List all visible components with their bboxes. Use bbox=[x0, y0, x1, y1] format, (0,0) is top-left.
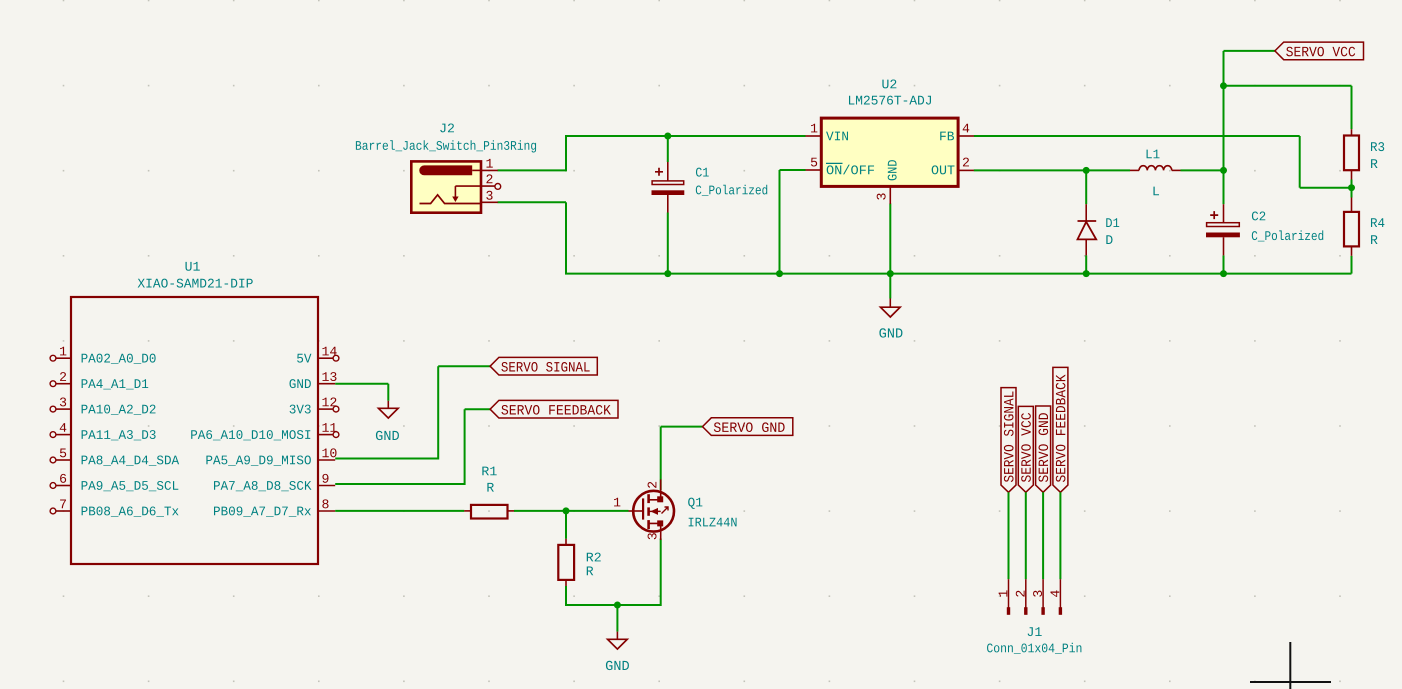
global label SERVO GND bbox=[703, 418, 793, 436]
global label SERVO SIGNAL at J1 bbox=[1001, 388, 1016, 493]
wire OUT to D1 bbox=[974, 169, 1086, 171]
wire J1 pin 2 bbox=[1025, 492, 1027, 579]
node U2 GND junction bbox=[887, 270, 894, 277]
wire J2 pin1 to VIN segment A bbox=[498, 169, 567, 171]
wire Q1 drain riser bbox=[660, 427, 662, 490]
J1 reference designator bbox=[1028, 627, 1042, 636]
node C1 top junction bbox=[664, 133, 671, 140]
wire R3 bottom to node bbox=[1351, 180, 1353, 188]
J1 pin 3 bbox=[1042, 579, 1044, 614]
wire top rail to U2 VIN bbox=[565, 135, 806, 137]
wire C1 bottom lead bbox=[667, 213, 669, 274]
wire FB to divider bbox=[1300, 187, 1352, 189]
U1 pin 9 PA7_A8_D8_SCK bbox=[318, 485, 335, 487]
resistor R4 bbox=[1351, 198, 1353, 212]
wire J1 pin 1 bbox=[1008, 492, 1010, 579]
U1 pin 8 PB09_A7_D7_Rx bbox=[318, 510, 335, 512]
wire D1 bottom green lead bbox=[1085, 255, 1087, 273]
transistor Q1 body bbox=[633, 491, 674, 532]
wire SERVO VCC riser bbox=[1223, 51, 1225, 170]
J2 sleeve contact bar bbox=[419, 165, 472, 175]
wire C2 bottom lead bbox=[1223, 255, 1225, 273]
global label SERVO VCC at J1 bbox=[1018, 406, 1033, 492]
J2 switch arm bbox=[454, 186, 456, 197]
U1 pin 10 PA5_A9_D9_MISO bbox=[318, 459, 335, 461]
C1 value label bbox=[696, 185, 767, 196]
global label SERVO SIGNAL bbox=[490, 357, 597, 375]
node gate junction bbox=[563, 507, 570, 514]
wire R3 top lead bbox=[1351, 86, 1353, 129]
R3 reference designator bbox=[1371, 142, 1384, 151]
wire VCC to R3 branch bbox=[1224, 85, 1352, 87]
J1 pin 2 bbox=[1025, 579, 1027, 614]
U1 pin 4 PA11_A3_D3 bbox=[56, 434, 71, 436]
R2 value label bbox=[587, 567, 594, 576]
J2 pin 1 bbox=[481, 169, 498, 171]
Q1 value label bbox=[689, 518, 737, 527]
global label SERVO GND at J1 bbox=[1036, 406, 1051, 492]
wire Q1 source drop bbox=[660, 539, 662, 607]
wire FB drop bbox=[1299, 136, 1301, 188]
R1 reference designator bbox=[482, 467, 496, 476]
node R3 R4 divider junction bbox=[1348, 184, 1355, 191]
wire ON/OFF riser bbox=[779, 170, 781, 274]
resistor R3 bbox=[1351, 129, 1353, 135]
Q1 reference designator bbox=[688, 498, 702, 509]
node SERVO VCC junction bbox=[1220, 82, 1227, 89]
R4 value label bbox=[1371, 235, 1378, 244]
J1 pin 1 bbox=[1008, 579, 1010, 614]
C2 reference designator bbox=[1252, 211, 1265, 220]
U1 pin 12 3V3 bbox=[318, 408, 333, 410]
R4 reference designator bbox=[1371, 218, 1384, 227]
regulator U2 body bbox=[821, 118, 958, 186]
ground symbol near U1 bbox=[387, 401, 389, 409]
inductor L1 bbox=[1130, 169, 1139, 171]
Q1 source pin 3 bbox=[649, 523, 661, 531]
U2 reference designator bbox=[882, 79, 896, 88]
wire junction to R2 bbox=[565, 511, 567, 539]
wire R4 bottom lead bbox=[1351, 256, 1353, 274]
J2 pin 2 bbox=[455, 185, 494, 187]
Q1 channel bars bbox=[647, 494, 650, 503]
mcu U1 body bbox=[71, 297, 318, 564]
global label SERVO FEEDBACK at J1 bbox=[1053, 367, 1068, 492]
U1 pin 7 PB08_A6_D6_Tx bbox=[56, 510, 71, 512]
Q1 body arrow bbox=[649, 510, 661, 512]
D1 value label bbox=[1106, 235, 1112, 244]
wire FB horizontal bbox=[974, 135, 1300, 137]
ground symbol lower bbox=[616, 632, 618, 640]
U2 pin 4 FB bbox=[958, 135, 974, 137]
capacitor C2 bbox=[1223, 204, 1225, 223]
node L1 output junction bbox=[1220, 167, 1227, 174]
node D1 bottom junction bbox=[1083, 270, 1090, 277]
ground symbol below U2 bbox=[889, 299, 891, 308]
node source junction bbox=[614, 602, 621, 609]
wire bottom rail bbox=[565, 273, 1352, 275]
capacitor C1 bbox=[667, 162, 669, 181]
node ON/OFF junction bbox=[776, 270, 783, 277]
J1 value label bbox=[987, 643, 1081, 654]
wire pin8 to R1 bbox=[335, 510, 464, 512]
node D1 top junction bbox=[1083, 167, 1090, 174]
diode D1 bbox=[1085, 204, 1087, 221]
wire U1 pin13 to ground bbox=[335, 383, 388, 385]
wire divider to R4 bbox=[1351, 188, 1353, 198]
U1 pin 14 5V bbox=[318, 357, 333, 359]
U1 reference designator bbox=[185, 262, 199, 271]
wire pin9 to SERVO FEEDBACK bbox=[335, 483, 464, 485]
wire J1 pin 4 bbox=[1059, 492, 1061, 579]
wire to SERVO VCC label bbox=[1224, 50, 1276, 52]
wire J1 pin 3 bbox=[1042, 492, 1044, 579]
C2 plus sign bbox=[1210, 211, 1218, 219]
wire R1 to Q1 gate bbox=[514, 510, 629, 512]
R3 value label bbox=[1371, 159, 1378, 168]
Q1 drain pin 2 bbox=[649, 491, 661, 500]
L1 value label bbox=[1153, 187, 1159, 196]
wire U2 GND drop bbox=[889, 204, 891, 274]
R1 value label bbox=[487, 483, 494, 492]
connector J2 body bbox=[411, 161, 481, 212]
wire J2 pin1 riser bbox=[565, 136, 567, 171]
C2 value label bbox=[1252, 230, 1323, 241]
wire J2 pin3 segment bbox=[498, 201, 567, 203]
wire GND stem lower bbox=[616, 605, 618, 632]
C1 reference designator bbox=[696, 168, 709, 177]
node C1 bottom junction bbox=[664, 270, 671, 277]
global label SERVO FEEDBACK bbox=[490, 400, 618, 418]
J1 pin 4 bbox=[1059, 579, 1061, 614]
U1 pin 2 PA4_A1_D1 bbox=[56, 383, 71, 385]
U2 pin 3 GND bbox=[889, 186, 891, 204]
wire J2 pin3 drop bbox=[565, 202, 567, 273]
U1 pin 11 PA6_A10_D10_MOSI bbox=[318, 434, 333, 436]
U1 pin 3 PA10_A2_D2 bbox=[56, 408, 71, 410]
resistor R1 bbox=[464, 510, 471, 512]
Q1 body diode mark bbox=[662, 507, 669, 514]
U2 pin 1 VIN bbox=[806, 135, 822, 137]
wire ON/OFF horizontal bbox=[780, 169, 806, 171]
U2 value label bbox=[849, 96, 931, 105]
wire pin10 to SERVO SIGNAL bbox=[335, 458, 438, 460]
J2 reference designator bbox=[440, 123, 454, 132]
wire GND stem below U2 bbox=[889, 274, 891, 299]
J2 tip contact bbox=[420, 195, 482, 204]
wire C1 top lead bbox=[667, 136, 669, 162]
resistor R2 bbox=[565, 539, 567, 545]
U1 pin 13 GND bbox=[318, 383, 335, 385]
node C2 bottom junction bbox=[1220, 270, 1227, 277]
L1 reference designator bbox=[1147, 150, 1160, 159]
wire L1 to C2 node bbox=[1181, 169, 1224, 171]
R2 reference designator bbox=[587, 553, 601, 562]
U1 pin 6 PA9_A5_D5_SCL bbox=[56, 485, 71, 487]
global label SERVO VCC bbox=[1275, 42, 1364, 60]
U1 pin 5 PA8_A4_D4_SDA bbox=[56, 459, 71, 461]
Q1 gate pin 1 bbox=[629, 510, 644, 512]
wire C2 top lead bbox=[1223, 170, 1225, 204]
U1 pin 1 PA02_A0_D0 bbox=[56, 357, 71, 359]
wire R2 to bottom node bbox=[565, 586, 567, 605]
U1 value label bbox=[138, 279, 253, 288]
J2 value label bbox=[356, 140, 536, 152]
J2 pin 3 bbox=[481, 201, 498, 203]
C1 plus sign bbox=[655, 168, 663, 176]
D1 reference designator bbox=[1106, 218, 1119, 227]
sheet corner marker bbox=[1250, 642, 1331, 689]
wire D1 top green lead bbox=[1085, 170, 1087, 204]
U2 pin 5 ON/OFF bbox=[806, 169, 822, 171]
U2 pin 2 OUT bbox=[958, 169, 974, 171]
wire D1 to L1 bbox=[1086, 169, 1130, 171]
